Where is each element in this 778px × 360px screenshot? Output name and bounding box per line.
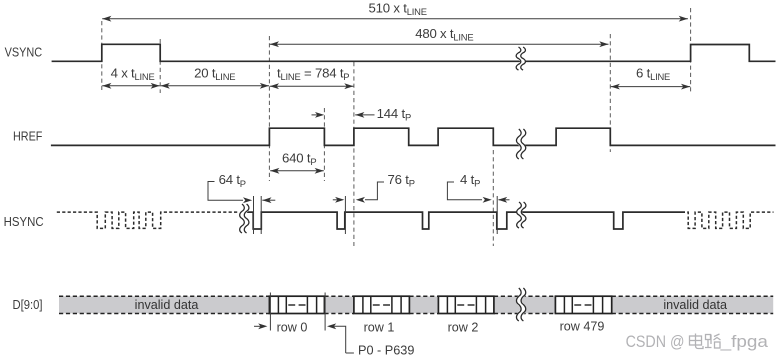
guide dashed line at HREF row0 end x=324 xyxy=(323,108,325,181)
data block row 1 xyxy=(354,296,410,313)
svg-text:D[9:0]: D[9:0] xyxy=(13,297,43,312)
svg-text:row 479: row 479 xyxy=(560,320,605,334)
svg-text:row 1: row 1 xyxy=(364,320,395,334)
data block row 2 xyxy=(438,296,494,313)
bus invalid-data gray band segments xyxy=(59,296,269,313)
dimension arrow 6 tLINE xyxy=(611,86,691,88)
svg-text:row 2: row 2 xyxy=(448,320,479,334)
data block row 0 xyxy=(269,296,324,313)
dimension arrow tLINE = 784 tP xyxy=(270,85,354,87)
guide dashed line at active video start x=269 xyxy=(268,36,270,181)
break symbol on data bus xyxy=(519,288,524,321)
svg-text:CSDN @: CSDN @ xyxy=(626,332,685,351)
svg-text:row 0: row 0 xyxy=(277,320,308,334)
guide dashed line at active video end x=610 xyxy=(609,34,611,152)
svg-text:invalid data: invalid data xyxy=(135,298,199,312)
HSYNC dashed idle waveform right xyxy=(687,212,773,228)
tick mark HSYNC rise x=345 xyxy=(344,196,346,234)
tick marks HSYNC pulse width 64 tP xyxy=(253,196,255,234)
guide dashed line at VSYNC pulse start x=102 xyxy=(101,21,103,93)
dimension arrow 4 x tLINE xyxy=(102,85,160,87)
tick marks data block row 0 edges xyxy=(269,293,271,331)
break symbol on HSYNC at x=244 xyxy=(242,204,247,233)
break symbol on VSYNC xyxy=(518,47,523,70)
VSYNC waveform xyxy=(52,44,776,61)
dimension arrow into row 0 start xyxy=(254,325,265,327)
HSYNC solid waveform xyxy=(247,212,685,229)
guide dashed line at HREF row1 start x=354 xyxy=(353,62,355,246)
guide dashed line at VSYNC pulse end x=160 xyxy=(159,39,161,93)
svg-text:invalid data: invalid data xyxy=(663,298,727,312)
callout bracket 4 tP xyxy=(447,182,482,200)
callout bracket 76 tP xyxy=(365,182,384,200)
tick mark HSYNC fall x=497 xyxy=(496,196,498,234)
data block row 479 xyxy=(555,296,611,313)
dimension arrow 144 tP right part xyxy=(355,114,374,116)
guide dashed line at HREF row2 end x=493 xyxy=(492,150,494,246)
svg-text:HREF: HREF xyxy=(13,129,42,144)
dimension arrow 76 tP left outside xyxy=(333,199,343,201)
dimension arrow into row 0 end and P0-P639 bracket xyxy=(330,326,354,353)
dimension arrow 480 x tLINE xyxy=(270,43,609,45)
break symbol on HREF xyxy=(519,129,524,159)
dimension arrow 4 tP right outside xyxy=(499,199,510,201)
svg-text:_fpga: _fpga xyxy=(719,332,768,351)
dimension arrow 510 x tLINE xyxy=(102,18,688,20)
HREF waveform xyxy=(51,128,776,145)
dimension arrow 144 tP left part xyxy=(312,114,323,116)
svg-text:VSYNC: VSYNC xyxy=(5,45,43,60)
dimension arrow 64 tP right outside xyxy=(262,199,275,201)
break symbol on HSYNC at x=521 xyxy=(519,202,524,228)
svg-text:P0 - P639: P0 - P639 xyxy=(358,344,414,358)
bus band dashed borders xyxy=(59,295,269,297)
dimension arrow 640 tP xyxy=(270,170,324,172)
HSYNC dashed idle waveform left xyxy=(57,212,238,228)
guide dashed line at next VSYNC pulse x=690 xyxy=(690,8,692,93)
callout bracket 64 tP xyxy=(208,182,243,201)
svg-text:HSYNC: HSYNC xyxy=(4,214,44,229)
dimension arrow 20 tLINE xyxy=(161,85,269,87)
